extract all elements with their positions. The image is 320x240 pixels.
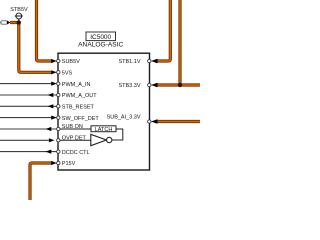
pin arrow P15V (in) (51, 161, 57, 165)
pin circle DCDC CTL (57, 150, 60, 153)
svg-text:STB5V: STB5V (10, 7, 28, 13)
pin circle P15V (57, 161, 60, 164)
IC5000 reference label box (86, 32, 116, 41)
wire OVP DET pin to inverter input (60, 139, 91, 141)
svg-text:DCDC CTL: DCDC CTL (62, 150, 90, 156)
svg-text:SUB_AI_3.3V: SUB_AI_3.3V (107, 115, 141, 121)
wire P15V from bottom (30, 163, 52, 200)
svg-text:P15V: P15V (62, 161, 76, 167)
svg-text:STB_RESET: STB_RESET (62, 105, 95, 111)
inverter U2 (91, 134, 112, 145)
wire STB_RESET (0, 105, 57, 107)
ferrite bead FB1 on STB5V input (0, 21, 11, 25)
pin circle STB1.1V (148, 59, 151, 62)
svg-text:PWM_A_IN: PWM_A_IN (62, 82, 91, 88)
pin circle STB3.3V (148, 83, 151, 86)
wire STB1.1V from top (155, 0, 170, 61)
pin arrow OVP DET (in) (49, 138, 55, 142)
pin arrow 5VS (in) (51, 70, 57, 74)
pin circle PWM_A_OUT (57, 93, 60, 96)
pin arrow STB1.1V (in) (151, 59, 158, 64)
svg-text:LATCH: LATCH (95, 127, 113, 133)
wire STB3.3V from top and to right edge (155, 0, 200, 85)
svg-text:5VS: 5VS (62, 71, 73, 77)
pin arrow SUB_AI_3.3V (in) (151, 119, 158, 124)
pin arrow STB_RESET (out) (48, 104, 54, 108)
wire OVP DET (0, 139, 53, 141)
pin arrow SUB5V (in) (51, 59, 57, 63)
pin arrow SUB ON (out) (46, 127, 52, 131)
wire DCDC CTL (0, 151, 57, 153)
wire SUB ON (0, 128, 57, 130)
svg-text:ANALOG-ASIC: ANALOG-ASIC (78, 42, 123, 49)
pin arrow PWM_A_OUT (out) (48, 93, 54, 97)
pin arrow STB3.3V (in) (151, 83, 158, 88)
pin arrow PWM_A_IN (in) (51, 82, 57, 86)
pin circle STB_RESET (57, 105, 60, 108)
wire PWM_A_IN (0, 83, 53, 85)
pin circle SW_OFF_DET (57, 116, 60, 119)
pin arrow SW_OFF_DET (in) (51, 116, 57, 120)
pin circle 5VS (57, 71, 60, 74)
junction on STB5V net (17, 20, 21, 24)
wire LATCH output to inverter output (112, 129, 123, 140)
svg-text:SUB5V: SUB5V (62, 59, 80, 65)
wire SUB_AI_3.3V to right edge (155, 120, 200, 123)
svg-text:PWM_A_OUT: PWM_A_OUT (62, 93, 97, 99)
wire SUB5V vertical from top (37, 0, 53, 61)
pin circle SUB_AI_3.3V (148, 120, 151, 123)
LATCH block (91, 126, 116, 133)
pin arrow DCDC CTL (out) (46, 150, 52, 154)
svg-text:IC5000: IC5000 (90, 34, 111, 41)
STB5V power flag (10, 7, 28, 23)
svg-text:SW_OFF_DET: SW_OFF_DET (62, 116, 100, 122)
wire PWM_A_OUT (0, 94, 57, 96)
wire SUB ON pin to LATCH input (60, 128, 91, 130)
wire SW_OFF_DET (0, 117, 53, 119)
pin circle SUB ON (57, 127, 60, 130)
svg-text:STB1.1V: STB1.1V (118, 59, 140, 65)
wire 5VS from STB5V junction (10, 23, 52, 73)
svg-text:STB3.3V: STB3.3V (118, 83, 140, 89)
op-amp U1 body IC5000 (58, 53, 150, 170)
pin circle PWM_A_IN (57, 82, 60, 85)
pin circle OVP DET (57, 139, 60, 142)
junction STB3.3V net (178, 83, 182, 87)
pin circle SUB5V (57, 59, 60, 62)
